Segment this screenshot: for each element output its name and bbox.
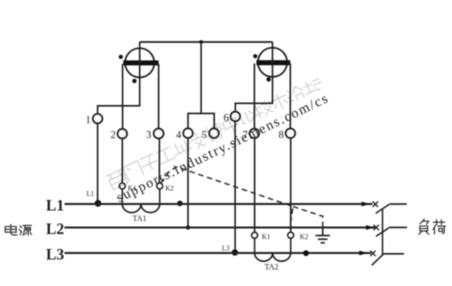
ground symbol on L2 [315,228,330,243]
wire: terminal 6 riser (top) [234,103,236,112]
switch pole 3: arrowhead on L3 [359,251,367,256]
switch pole 3: fixed contact cross [370,251,375,256]
CT TA1 winding humps [122,204,159,213]
terminal 8 [286,129,296,139]
svg-text:K1: K1 [262,233,271,241]
wire: terminal 2 down to TA1 K1 [121,139,123,184]
supply line L3 [65,252,372,254]
polarity dot element 2 current coil [266,77,270,81]
junction dot on L3 below terminal 6 [232,249,238,255]
wire: terminal 6 down to L3 [234,121,236,253]
CT TA2 winding humps [255,253,291,261]
switch pole 2: arrowhead on L2 [366,225,374,230]
dashed link from TA1 K2 [161,167,293,207]
polarity dot element 1 current coil [132,79,136,83]
wire: TA2 K2 down to L3 [290,238,292,253]
junction dot on L2 below terminal 4 [186,225,190,229]
switch pole 1: fixed contact cross [373,202,378,207]
wire: terminal 4 down to L2 [187,138,189,228]
svg-text:TA1: TA1 [133,214,147,223]
switch linkage bar [382,209,384,255]
energy meter element 2: current coil thick bar [256,60,290,65]
wire: current bar right end down to terminal 3 [158,64,160,129]
polarity dot element 2 voltage coil [253,54,257,58]
switch pole 1: load-side stub [389,203,406,205]
terminal 7 [250,129,260,139]
energy meter element 2: voltage coil circle [258,48,287,77]
wire: terminal 1 down to L1 [97,123,99,204]
supply line L1 [65,203,373,205]
wire: element2 bar left end down to terminal 7 [253,64,255,129]
wire: element1 voltage coil center vertical [139,42,141,106]
switch pole 3: load-side stub [384,253,404,255]
svg-text:1: 1 [86,115,91,126]
switch pole 2: fixed contact cross [374,225,379,230]
svg-text:5: 5 [202,130,207,141]
svg-text:L1: L1 [46,198,64,215]
wire: terminal 3 down to TA1 K2 [158,139,160,184]
CT TA1 secondary terminal K2 [157,183,163,189]
CT TA2 secondary terminal K1 [252,232,258,238]
wire: TA2 K1 down to L3 [254,238,256,253]
svg-text:8: 8 [279,130,284,141]
terminal 4 [183,128,193,138]
dashed branch to ground tap [293,207,323,227]
svg-text:7: 7 [243,130,248,141]
wire: terminal 7 down to TA2 K1 [254,138,256,232]
terminal 2 [118,129,128,139]
svg-text:TA2: TA2 [265,262,279,271]
wire: voltage tap stem down to link bracket [200,42,202,113]
svg-text:supports.industry.siemens.com/: supports.industry.siemens.com/cs [114,91,331,206]
switch pole 1: arrowhead on L1 [362,202,371,207]
polarity dot element 1 voltage coil [119,55,123,59]
svg-text:4: 4 [176,130,182,141]
svg-text:L2: L2 [46,221,64,238]
svg-text:6: 6 [224,113,229,124]
wire: link bracket over terminals 4 and 5 [188,113,214,128]
terminal 1 [93,114,103,124]
wire: common voltage top bus [140,41,273,43]
wire: TA1 K2 down to L1 [159,189,161,204]
wire: jog from element2 voltage coil to terminal 6 riser [235,102,273,104]
switch pole 1: blade [376,204,390,213]
svg-text:K1: K1 [128,185,137,193]
wire: TA1 K1 down to L1 [121,189,123,204]
svg-text:L3: L3 [46,246,64,263]
energy meter element 1: voltage coil circle [125,48,154,77]
junction: top bus tap to terminals 4/5 [199,40,203,44]
supply line L2 [65,227,376,229]
switch pole 2: blade [376,228,389,237]
svg-text:L3: L3 [222,246,230,253]
wire: terminal 1 riser (top) [97,105,99,114]
switch pole 2: load-side stub [389,226,407,228]
svg-text:3: 3 [146,130,151,141]
dashed branch down to TA2 K2 [290,209,293,229]
wire: element2 voltage coil center vertical [272,42,274,103]
energy meter element 1: current coil thick bar [123,60,158,65]
CT TA2 secondary terminal K2 [288,232,294,238]
isolated junction dot on L3 [303,250,309,256]
switch pole 3: blade [372,254,384,265]
svg-text:K2: K2 [165,185,174,193]
wire: terminal 8 down to TA2 K2 [290,138,292,232]
wire: current bar left end down to terminal 2 [122,64,124,129]
label 负荷 (load) [419,219,445,234]
isolated junction dot on L1 [177,201,183,207]
terminal 3 [154,129,164,139]
terminal 5 [209,128,219,138]
svg-text:K2: K2 [300,233,309,241]
CT TA1 secondary terminal K1 [119,183,125,189]
terminal 6 [231,112,241,122]
wire: jog from voltage coil to terminal 1 riser [98,105,141,107]
svg-text:2: 2 [111,130,116,141]
svg-text:L1: L1 [87,191,95,198]
label 电源 (supply) [5,225,31,236]
wire: element2 bar right end down to terminal 8 [289,64,291,129]
junction dot on L1 below terminal 1 [95,200,102,207]
